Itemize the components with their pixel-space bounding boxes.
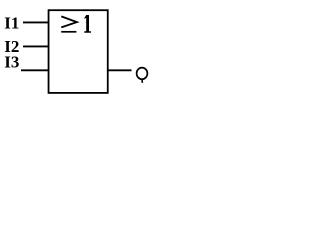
output wire Q xyxy=(107,69,132,71)
output label Q (tail) xyxy=(141,79,143,83)
output label Q (ring) xyxy=(137,68,148,80)
OR gate symbol underbar of &#8805; xyxy=(61,31,76,33)
OR gate U1 body xyxy=(49,10,108,93)
OR gate symbol digit 1 xyxy=(84,15,91,33)
svg-text:I1: I1 xyxy=(4,13,19,32)
svg-text:I3: I3 xyxy=(4,53,19,72)
OR gate symbol &#8805; (chevron) xyxy=(61,16,77,27)
wire I3 xyxy=(21,69,49,71)
wire I2 xyxy=(23,45,49,47)
wire I1 xyxy=(23,21,49,23)
